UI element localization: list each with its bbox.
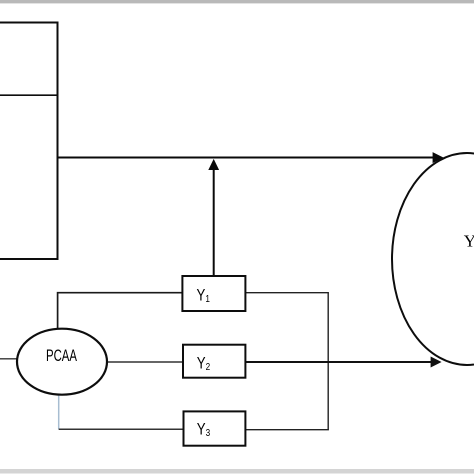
wire: horizontal to box Y3 [59,428,184,430]
label Y1 [197,286,210,305]
label Y3 [197,420,210,439]
block X (input block, cropped at left edge) [0,23,58,260]
label Y2 [197,354,210,373]
label PCAA [46,347,77,366]
wire: box Y1 right to bus [245,292,329,294]
wire: PCAA left stub to image edge [0,358,18,360]
svg-text:Y: Y [464,232,474,251]
ellipse Y (output, cropped at right edge) [392,153,474,365]
wire: box Y2 right to ellipse Y with arrowhead [245,357,441,368]
wire: main horizontal arrow from input block to ellipse Y [58,152,444,163]
divider line inside input block [0,94,58,96]
wire: PCAA up then right to box Y1 [58,293,183,329]
wire: blue vertical from PCAA bottom [58,395,60,430]
box Y1 [182,276,245,311]
wire: box Y3 right to bus [245,429,329,431]
ellipse PCAA [17,329,107,395]
box Y2 [183,345,245,378]
label Y [464,232,474,251]
svg-text:PCAA: PCAA [46,347,77,366]
arrow from box Y1 up to main wire [208,159,219,276]
wire: vertical bus [327,293,329,430]
box Y3 [184,411,246,445]
wire: PCAA right to box Y2 [107,361,184,363]
